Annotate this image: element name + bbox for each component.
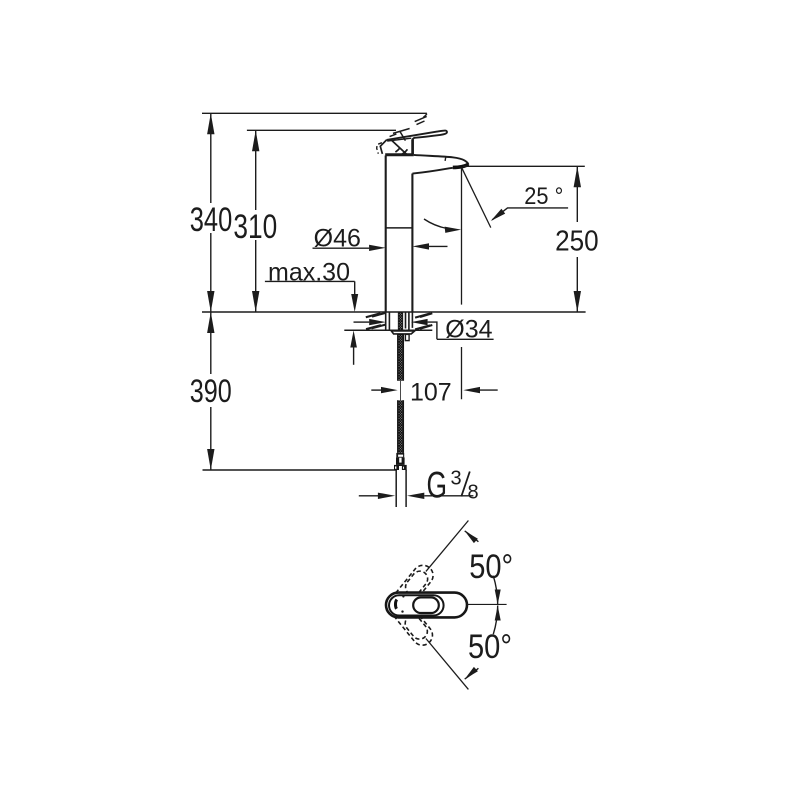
- spout angle line 25: [462, 167, 491, 227]
- countertop line: [202, 311, 586, 313]
- hose end reference line: [203, 469, 407, 471]
- lever slot: [413, 597, 439, 613]
- lever blade: [387, 130, 447, 154]
- supply hose braided upper: [398, 334, 404, 453]
- swing line upper 50: [426, 521, 469, 572]
- handle capsule outer (plan view): [386, 593, 467, 618]
- connector tube: [396, 470, 406, 507]
- dimension Ø34: [354, 315, 494, 343]
- dimension 250: [555, 166, 599, 312]
- leader 25: [491, 183, 568, 221]
- lever base blob: [380, 140, 407, 155]
- extension line top (lever raised height): [202, 113, 427, 117]
- hose connector nut: [394, 465, 407, 471]
- svg-text:50°: 50°: [468, 628, 512, 666]
- svg-text:340: 340: [190, 201, 233, 239]
- svg-text:8: 8: [468, 481, 479, 503]
- dimension max.30: [265, 258, 358, 365]
- svg-text:3: 3: [451, 467, 462, 489]
- lever raised (dashed): [390, 116, 427, 140]
- counter section hole edges: [386, 312, 413, 330]
- handle inner outline: [389, 595, 444, 615]
- flange tab: [405, 334, 409, 340]
- spout mark: [395, 600, 396, 609]
- mounting flange: [391, 331, 414, 334]
- handle swing dashed positions (plan view): [389, 561, 437, 649]
- extension line lever tip height: [247, 129, 396, 131]
- plan centerline: [467, 603, 507, 605]
- spout outlet: [453, 164, 469, 167]
- dimension 107: [371, 378, 497, 406]
- dimension G3/8: [359, 465, 479, 506]
- faucet body: [385, 155, 414, 312]
- dimension Ø46: [313, 225, 448, 253]
- svg-text:310: 310: [233, 208, 277, 246]
- svg-text:Ø34: Ø34: [445, 315, 492, 343]
- svg-text:390: 390: [190, 373, 232, 409]
- detail dot lower: [401, 610, 403, 612]
- hose connector knurl: [396, 457, 405, 465]
- counter hatch right: [415, 313, 432, 329]
- angle arc 25: [424, 219, 447, 229]
- spout parting tick: [444, 157, 447, 161]
- dimension 310: [233, 130, 277, 312]
- hose connector collar: [396, 453, 404, 458]
- spout: [412, 155, 468, 174]
- detail dot upper: [402, 595, 404, 597]
- body seam: [386, 227, 412, 229]
- svg-text:250: 250: [555, 226, 599, 258]
- swing line lower 50: [426, 639, 469, 690]
- swing arc upper: [465, 531, 498, 605]
- dimension 340: [190, 113, 233, 312]
- threaded shank: [389, 312, 409, 331]
- lever stop flap (dashed): [377, 143, 382, 154]
- svg-text:107: 107: [410, 378, 452, 406]
- svg-text:50°: 50°: [469, 548, 513, 586]
- projection line from outlet: [461, 167, 463, 399]
- extension line outlet height: [463, 165, 585, 167]
- counter bottom line: [344, 329, 432, 331]
- dimension 390: [190, 312, 232, 470]
- swing arc lower: [465, 606, 498, 680]
- counter hatch left: [366, 313, 386, 329]
- svg-text:25 °: 25 °: [524, 183, 563, 210]
- svg-text:G: G: [427, 465, 448, 506]
